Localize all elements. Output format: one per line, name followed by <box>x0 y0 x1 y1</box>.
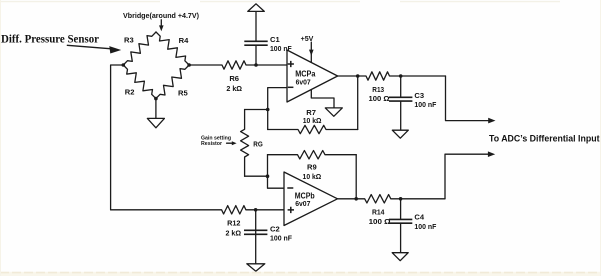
wire MCPa inverting input <box>268 88 287 130</box>
svg-text:R13: R13 <box>372 85 384 94</box>
resistor R12 <box>111 206 284 214</box>
svg-text:Diff. Pressure Sensor: Diff. Pressure Sensor <box>1 33 99 46</box>
resistor R7 <box>268 125 358 133</box>
svg-text:R14: R14 <box>372 207 385 216</box>
svg-text:To ADC’s Differential Input: To ADC’s Differential Input <box>489 133 600 143</box>
svg-text:R6: R6 <box>229 74 239 83</box>
svg-text:C1: C1 <box>270 35 280 44</box>
arrow from label to bridge <box>67 45 111 49</box>
left scan edge <box>0 0 2 276</box>
node bridge-right <box>187 63 191 67</box>
svg-text:+5V: +5V <box>301 34 315 43</box>
resistor R3 (bridge left-top arm) <box>123 32 156 65</box>
arrowhead output A <box>488 118 495 124</box>
resistor RG <box>241 110 249 177</box>
svg-text:R9: R9 <box>307 163 317 172</box>
MCPb plus input symbol <box>288 207 294 213</box>
arrow +5V supply to MCPa <box>310 42 312 62</box>
node bridge-bottom <box>154 97 158 101</box>
arrow Vbridge to bridge top node <box>160 20 162 27</box>
MCPa minus input symbol <box>288 86 294 88</box>
top scan edge <box>0 1 601 3</box>
ground C3 <box>392 130 408 138</box>
node R9 output junction <box>354 197 358 201</box>
wire R9 right to MCPb output <box>355 155 357 199</box>
node R12/C2 junction <box>254 208 258 212</box>
right scan edge <box>600 0 601 276</box>
svg-text:C4: C4 <box>414 213 424 222</box>
resistor R13 <box>338 72 446 80</box>
resistor R6 <box>189 61 287 69</box>
svg-text:100 nF: 100 nF <box>414 222 436 231</box>
capacitor C4 <box>400 199 402 220</box>
svg-text:Resistor: Resistor <box>201 141 223 147</box>
arrow gain label to RG <box>227 142 233 144</box>
capacitor C3 <box>400 76 402 97</box>
svg-text:100 Ω: 100 Ω <box>369 94 390 103</box>
node bridge-left <box>122 63 126 67</box>
node C1 junction <box>254 63 258 67</box>
resistor R9 <box>268 151 357 159</box>
node R14/C4 junction <box>399 197 403 201</box>
bottom scan edge <box>0 272 601 276</box>
MCPa plus input symbol <box>288 61 294 67</box>
op-amp MCPa <box>287 50 338 102</box>
svg-text:R2: R2 <box>125 88 135 97</box>
svg-text:6v07: 6v07 <box>296 77 311 86</box>
ground below bridge <box>155 99 157 119</box>
wire R7 to MCPa output <box>357 76 359 130</box>
resistor R14 <box>338 195 446 203</box>
svg-text:100 nF: 100 nF <box>414 100 436 109</box>
op-amp MCPb <box>284 172 338 226</box>
svg-text:6v07: 6v07 <box>295 199 310 208</box>
resistor R5 (bridge bottom-right arm) <box>156 65 189 99</box>
ground C2 <box>247 264 265 271</box>
wire MCPa V- pin to ground <box>311 90 334 108</box>
resistor R2 (bridge left-bottom arm) <box>123 65 156 99</box>
node MCPa output <box>356 74 360 78</box>
svg-text:100 nF: 100 nF <box>270 233 292 242</box>
svg-text:R12: R12 <box>227 218 240 227</box>
ground C4 <box>392 253 408 261</box>
node RG top junction <box>266 108 270 112</box>
svg-text:Vbridge(around +4.7V): Vbridge(around +4.7V) <box>123 11 199 20</box>
wire RG bottom to MCPb minus node <box>245 175 268 177</box>
wire bridge-left to R12 <box>111 65 124 210</box>
capacitor C2 <box>255 210 257 235</box>
svg-text:RG: RG <box>253 140 263 149</box>
svg-text:C3: C3 <box>414 91 424 100</box>
wire R9 left to MCPb inverting input <box>268 155 285 189</box>
resistor R4 (bridge top-right arm) <box>156 32 189 65</box>
svg-text:R5: R5 <box>178 89 188 98</box>
svg-text:2 kΩ: 2 kΩ <box>226 228 242 237</box>
power rail symbol above C1 <box>248 4 264 12</box>
svg-text:10 kΩ: 10 kΩ <box>303 116 322 125</box>
MCPb minus input symbol <box>287 187 293 189</box>
svg-text:100 Ω: 100 Ω <box>369 217 391 226</box>
wire output B stub <box>445 154 489 199</box>
node RG bottom junction <box>266 174 270 178</box>
svg-text:R4: R4 <box>179 36 189 45</box>
svg-text:C2: C2 <box>270 225 280 234</box>
arrowhead output B <box>488 151 495 157</box>
wire RG top to MCPa minus node <box>245 109 268 111</box>
capacitor C1 <box>255 45 257 65</box>
svg-text:2 kΩ: 2 kΩ <box>226 84 242 93</box>
svg-text:R3: R3 <box>124 36 134 45</box>
node R13/C3 junction <box>399 74 403 78</box>
svg-text:10 kΩ: 10 kΩ <box>303 172 322 181</box>
wire output A stub <box>446 76 490 121</box>
ground MCPa <box>325 108 342 116</box>
